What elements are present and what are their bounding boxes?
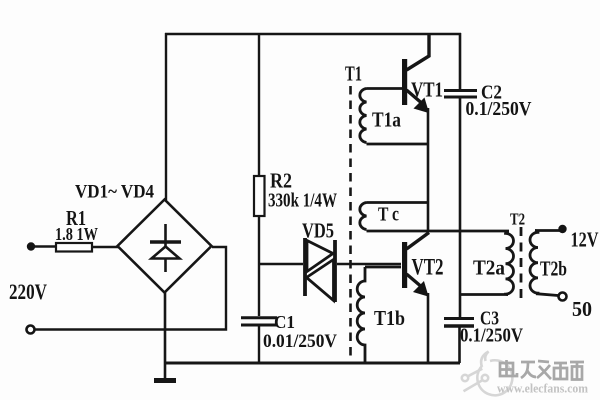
svg-text:0.1/250V: 0.1/250V xyxy=(466,99,532,120)
wire C2 to C3 vertical xyxy=(459,98,462,317)
wire top rail to R2 xyxy=(258,34,260,176)
wire left vertical (top rail to bridge top) xyxy=(165,33,167,200)
wire neutral input to bridge right vertex xyxy=(35,247,227,330)
wire R1 to bridge left vertex xyxy=(92,246,119,248)
wire midpoint long horizontal to T2a xyxy=(367,230,510,233)
wire bridge bottom to ground xyxy=(164,292,167,379)
svg-text:T2: T2 xyxy=(510,210,525,229)
svg-text:T c: T c xyxy=(378,204,399,226)
svg-text:VT2: VT2 xyxy=(412,255,444,280)
wire input to R1 xyxy=(33,245,56,247)
wire top rail to C2 xyxy=(459,33,462,89)
watermark logo xyxy=(462,352,513,396)
capacitor C3 xyxy=(444,317,474,320)
node output 50 circle xyxy=(559,293,567,301)
wire R2 to C1 xyxy=(258,216,260,316)
svg-text:330k 1/4W: 330k 1/4W xyxy=(268,190,337,212)
svg-text:T1: T1 xyxy=(345,62,362,86)
watermark text chinese xyxy=(500,360,584,380)
bridge rectifier VD1~VD4 diamond xyxy=(118,200,212,293)
resistor R2 xyxy=(254,176,265,216)
svg-text:T1b: T1b xyxy=(374,306,405,330)
svg-text:T1a: T1a xyxy=(372,108,401,132)
winding T1b xyxy=(357,267,401,362)
svg-text:50: 50 xyxy=(572,297,592,321)
transformer T2 core dashed line xyxy=(520,227,523,298)
capacitor C1 xyxy=(241,316,277,319)
wire C3 to bottom rail xyxy=(458,327,461,363)
diac VD5 xyxy=(305,238,335,302)
wire VD5 to VT2 base xyxy=(337,263,401,265)
resistor R1 xyxy=(56,243,92,252)
wire top rail xyxy=(165,33,461,36)
capacitor C2 xyxy=(444,89,477,92)
winding T2a xyxy=(459,232,514,295)
wire bottom rail xyxy=(165,362,460,365)
diode symbol inside bridge xyxy=(150,224,181,272)
transformer T1 core dashed line xyxy=(349,86,352,361)
svg-text:T2b: T2b xyxy=(540,257,567,281)
svg-text:VT1: VT1 xyxy=(411,78,443,102)
node terminal live input dot xyxy=(27,242,35,250)
wire C1 to bottom rail xyxy=(258,326,260,363)
svg-text:www.elecfans.com: www.elecfans.com xyxy=(497,382,589,396)
svg-text:1.8 1W: 1.8 1W xyxy=(55,224,98,244)
svg-text:C1: C1 xyxy=(274,312,295,332)
transistor VT1 xyxy=(402,34,429,112)
svg-text:0.1/250V: 0.1/250V xyxy=(460,326,523,347)
svg-text:220V: 220V xyxy=(9,279,47,304)
node output 12V dot xyxy=(558,225,566,233)
svg-text:12V: 12V xyxy=(571,228,599,252)
svg-text:VD1~ VD4: VD1~ VD4 xyxy=(75,182,154,203)
winding T1a xyxy=(360,89,428,145)
ground xyxy=(154,378,176,383)
svg-text:VD5: VD5 xyxy=(302,219,334,243)
svg-text:T2a: T2a xyxy=(473,256,505,280)
transistor VT2 xyxy=(402,233,429,296)
wire junction to VD5 xyxy=(259,263,303,265)
wire VT1 emitter down to midpoint xyxy=(427,108,430,231)
node terminal neutral input circle xyxy=(27,326,35,334)
winding Tc xyxy=(360,203,428,230)
winding T2b xyxy=(530,231,560,296)
wire VT2 emitter to bottom rail xyxy=(427,293,430,363)
svg-text:0.01/250V: 0.01/250V xyxy=(263,331,337,352)
